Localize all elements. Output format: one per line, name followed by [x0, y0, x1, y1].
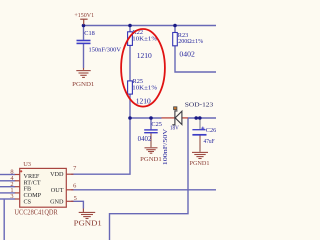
svg-text:150nF/300V: 150nF/300V	[89, 46, 122, 53]
svg-text:47uF: 47uF	[204, 138, 216, 145]
svg-text:UCC28C41QDR: UCC28C41QDR	[14, 208, 57, 216]
svg-text:100nF/50V: 100nF/50V	[163, 128, 169, 165]
svg-text:10K±1%: 10K±1%	[132, 85, 158, 92]
svg-text:SOD-123: SOD-123	[185, 101, 213, 108]
svg-text:+150V1: +150V1	[74, 12, 94, 19]
svg-text:6: 6	[73, 182, 76, 189]
svg-text:C26: C26	[206, 127, 216, 134]
svg-text:PGND1: PGND1	[190, 160, 210, 167]
svg-text:GND: GND	[50, 198, 64, 205]
svg-text:5: 5	[74, 195, 77, 202]
svg-text:0402: 0402	[179, 51, 195, 58]
svg-text:OUT: OUT	[51, 187, 64, 194]
svg-text:3: 3	[10, 193, 13, 200]
svg-text:1210: 1210	[137, 53, 153, 60]
svg-text:0402: 0402	[138, 136, 152, 143]
svg-text:C25: C25	[151, 121, 162, 128]
svg-text:200Ω±1%: 200Ω±1%	[178, 38, 204, 45]
svg-text:10K±1%: 10K±1%	[132, 36, 158, 43]
svg-text:18V: 18V	[170, 125, 179, 132]
svg-text:PGND1: PGND1	[140, 156, 162, 163]
svg-text:PGND1: PGND1	[72, 81, 94, 88]
svg-text:VDD: VDD	[50, 171, 64, 178]
svg-text:U3: U3	[23, 161, 31, 168]
svg-text:C18: C18	[84, 30, 95, 37]
svg-text:CS: CS	[24, 199, 32, 206]
svg-text:PGND1: PGND1	[74, 219, 103, 227]
